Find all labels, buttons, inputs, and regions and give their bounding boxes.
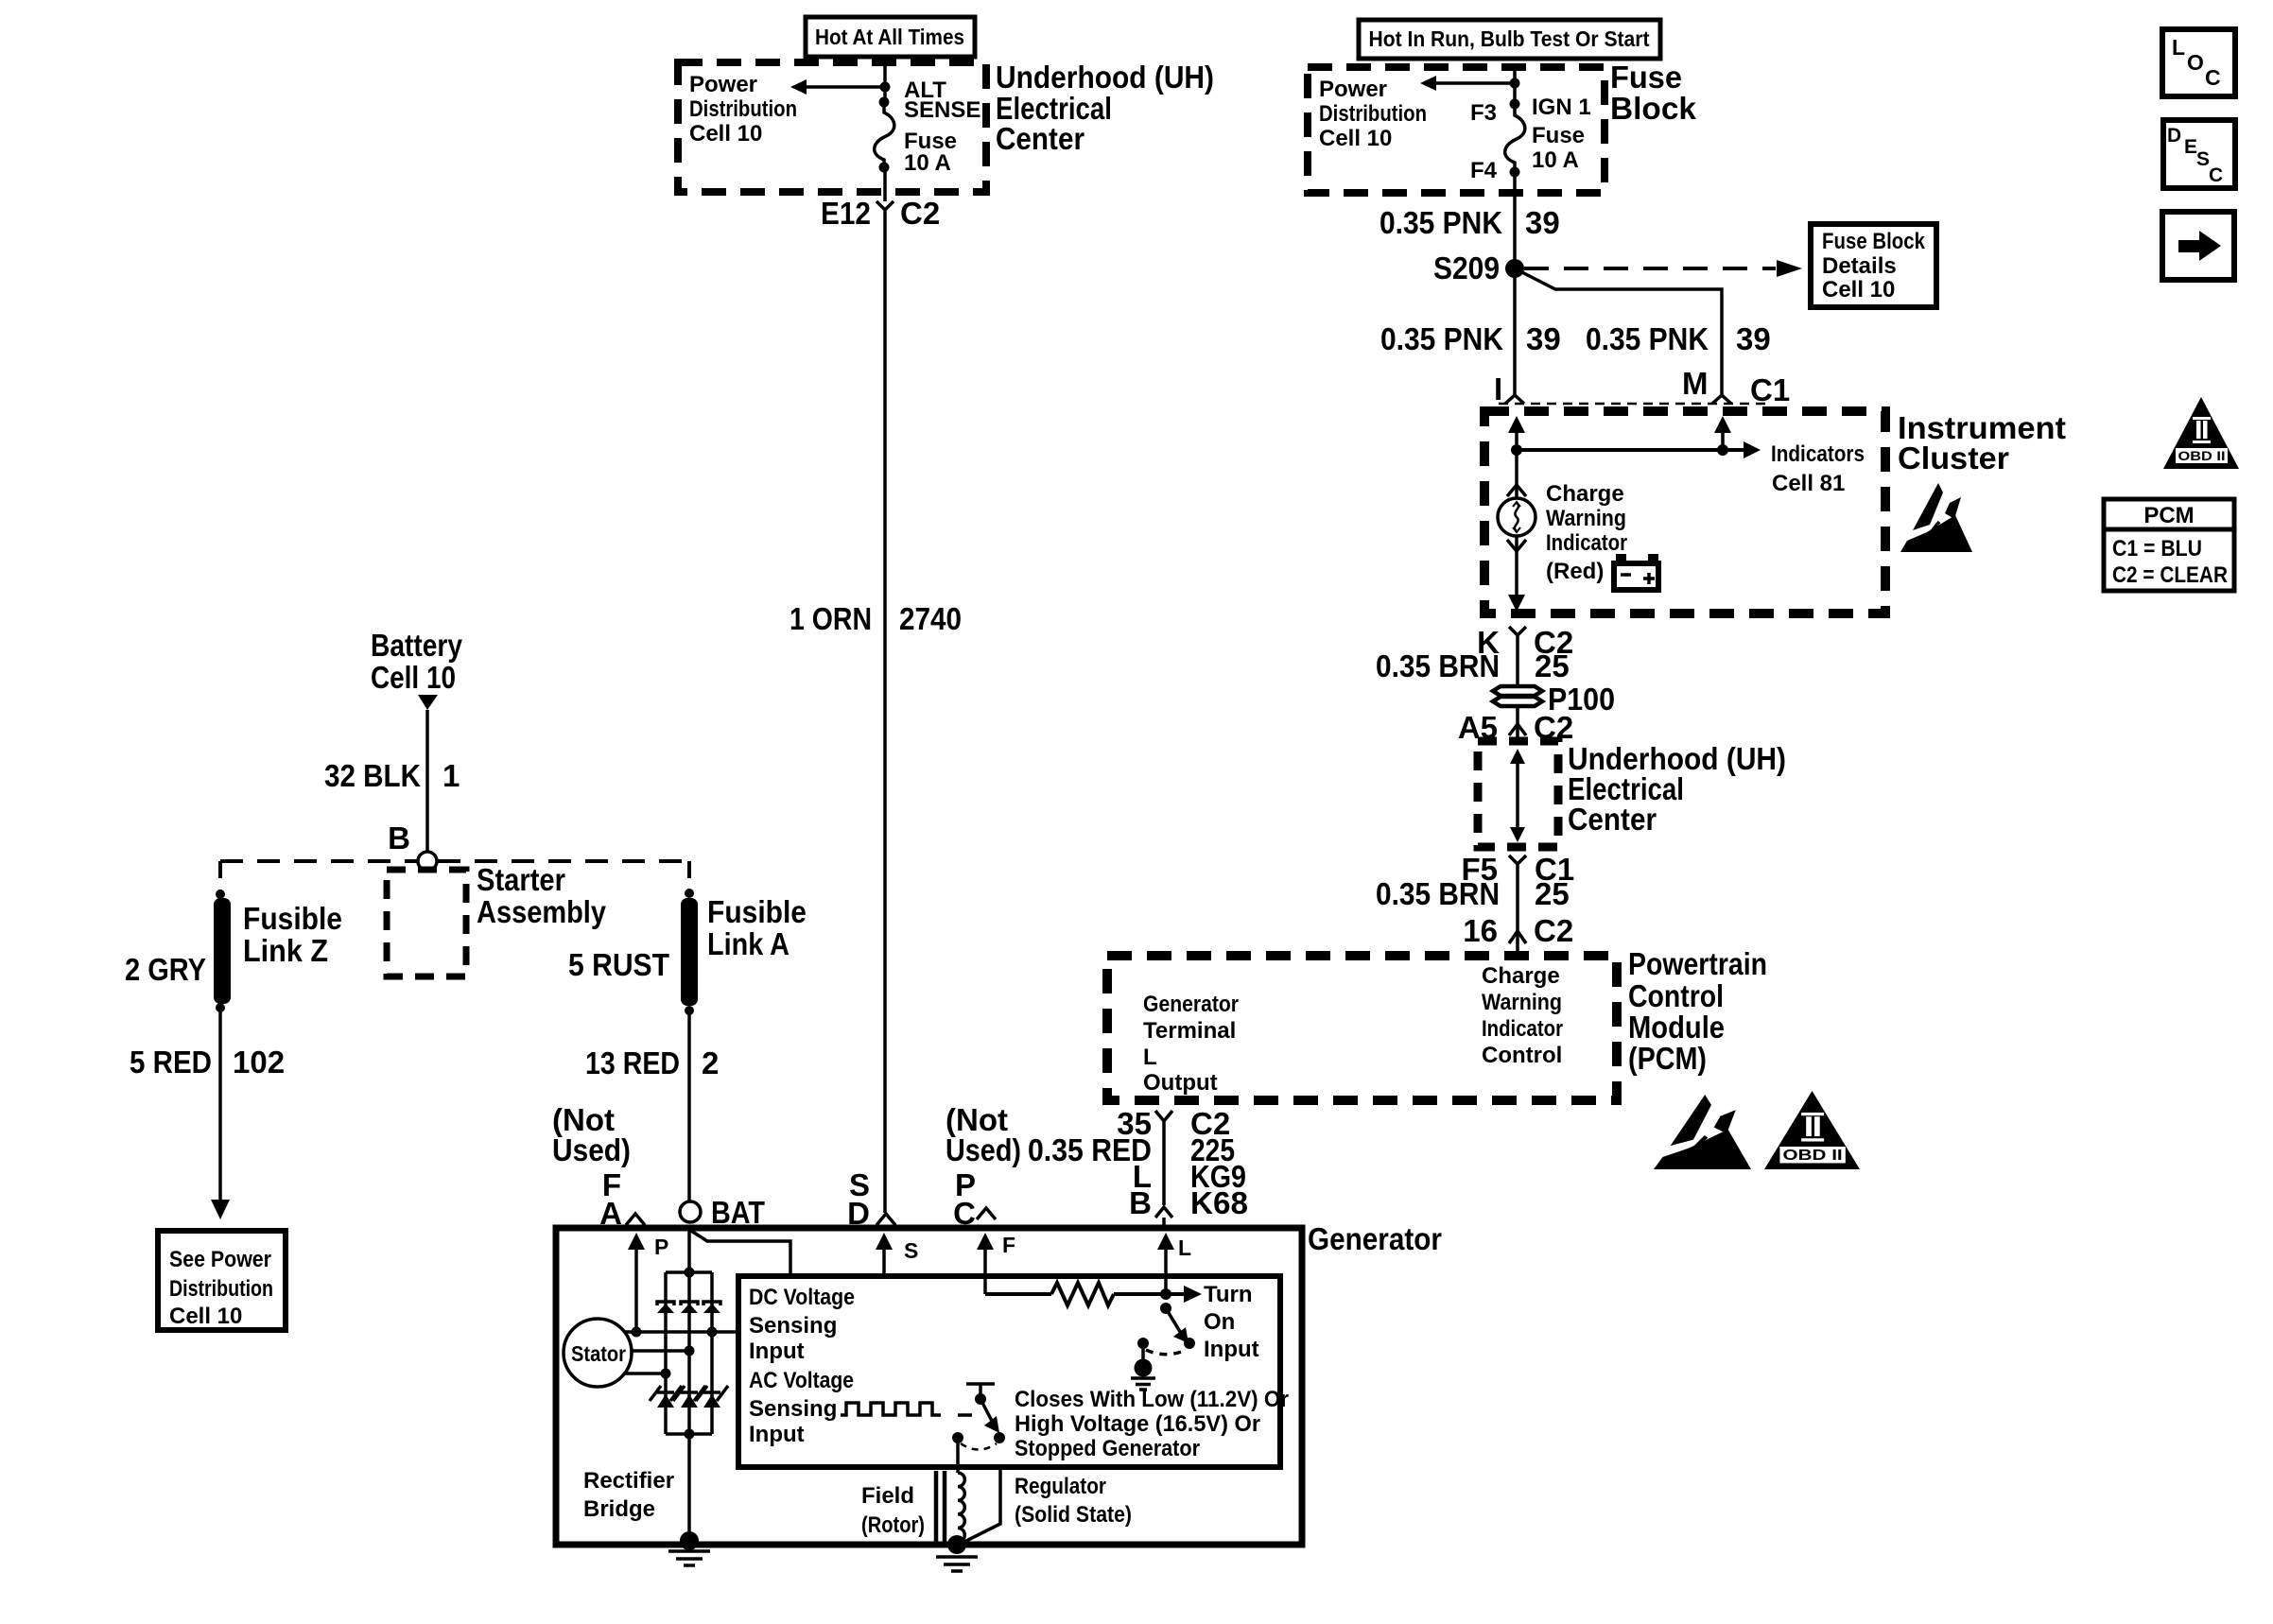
connector 35 C2 (tall Y to chevron) (1155, 1111, 1172, 1218)
svg-text:0.35 BRN: 0.35 BRN (1376, 648, 1500, 683)
svg-text:Distribution: Distribution (1319, 101, 1427, 127)
svg-text:Bridge: Bridge (583, 1496, 655, 1522)
diode 3 (top row) (703, 1302, 720, 1313)
ESD symbol (PCM) (1654, 1095, 1751, 1169)
connector K C2 (Y symbol) (1509, 627, 1526, 654)
chevron I (1505, 395, 1524, 404)
svg-text:Underhood (UH): Underhood (UH) (996, 60, 1214, 95)
svg-text:Used): Used) (946, 1132, 1021, 1167)
connector F5 C1 (Y symbol) (1509, 855, 1526, 883)
svg-text:Powertrain: Powertrain (1628, 946, 1767, 981)
svg-text:102: 102 (233, 1045, 285, 1080)
stator phase wire 2 (632, 1349, 689, 1353)
svg-text:C2: C2 (900, 196, 940, 231)
svg-text:10 A: 10 A (1532, 147, 1579, 173)
svg-text:0.35 PNK: 0.35 PNK (1586, 321, 1709, 356)
svg-text:Cell 10: Cell 10 (1319, 126, 1392, 151)
svg-text:Cell 10: Cell 10 (1822, 277, 1895, 302)
OBD II symbol (PCM) (1764, 1091, 1860, 1169)
switch 2 pivot dot (975, 1393, 986, 1405)
svg-text:Cell 10: Cell 10 (169, 1304, 242, 1329)
svg-text:39: 39 (1526, 321, 1561, 356)
arrow to Power Distribution (806, 85, 885, 89)
svg-text:Cell 10: Cell 10 (689, 121, 762, 147)
svg-text:C2: C2 (1534, 913, 1573, 948)
chevron A (626, 1214, 645, 1225)
svg-text:2: 2 (702, 1045, 719, 1080)
wire 32 BLK 1 (425, 710, 429, 854)
dashed wire B to fusible links (220, 859, 417, 863)
diode 1 (top row) (657, 1302, 674, 1313)
node dot F4 (1510, 167, 1520, 178)
fuse ALT SENSE (wavy symbol) (875, 102, 894, 166)
svg-text:5 RUST: 5 RUST (568, 947, 669, 982)
svg-text:Block: Block (1610, 91, 1697, 126)
wire ALT SENSE fuse feed (883, 64, 887, 103)
svg-text:25: 25 (1535, 648, 1570, 683)
node dot at arrow junction (880, 82, 891, 93)
switch 1 travel arc (dashed) (1146, 1350, 1184, 1355)
wire fuse to connector E12 (883, 167, 887, 201)
wire K to P100 (1516, 654, 1519, 687)
node dot above link Z (216, 890, 225, 899)
svg-text:Fusible: Fusible (707, 894, 807, 929)
fusible link A (681, 898, 698, 1006)
svg-text:Control: Control (1628, 978, 1724, 1013)
svg-text:0.35 PNK: 0.35 PNK (1380, 321, 1503, 356)
arrow Turn On Input (1166, 1292, 1185, 1296)
battery icon (1616, 554, 1626, 562)
node dot L junction (1160, 1288, 1171, 1300)
svg-text:Hot In Run, Bulb Test Or Start: Hot In Run, Bulb Test Or Start (1369, 26, 1650, 51)
svg-text:0.35 BRN: 0.35 BRN (1376, 876, 1500, 911)
icon box LOC (2162, 29, 2235, 96)
terminal circle BAT (680, 1201, 701, 1222)
splice S209 (1505, 259, 1524, 278)
switch 2 travel arc (dashed) (961, 1443, 997, 1450)
switch 2 fixed contact dot (952, 1432, 963, 1443)
switch 2 arm end dot (994, 1432, 1005, 1443)
svg-text:C1: C1 (1750, 372, 1790, 407)
svg-text:Stator: Stator (571, 1341, 626, 1366)
svg-text:OBD II: OBD II (1783, 1147, 1843, 1164)
generator box (556, 1228, 1302, 1545)
wire 13 RED 2 to BAT (687, 1011, 691, 1201)
svg-text:IGN 1: IGN 1 (1532, 95, 1591, 120)
svg-text:AC Voltage: AC Voltage (749, 1368, 854, 1393)
svg-text:Fuse: Fuse (1610, 60, 1682, 95)
icon box forward arrow (2162, 212, 2234, 280)
wire F to resistor (985, 1292, 1051, 1296)
dashed box Starter Assembly (387, 870, 466, 976)
dashed box Underhood Electrical Center (small) (1478, 741, 1558, 847)
svg-text:Input: Input (749, 1422, 805, 1447)
stator phase wire 3 (624, 1372, 666, 1375)
svg-text:16: 16 (1463, 913, 1498, 948)
terminal arrow F (983, 1240, 987, 1294)
field coil core bars (934, 1471, 939, 1543)
chevron C (977, 1208, 996, 1219)
ESD symbol (cluster) (1900, 483, 1972, 552)
svg-text:BAT: BAT (711, 1195, 765, 1230)
svg-text:Generator: Generator (1143, 992, 1239, 1017)
node dot left (1511, 444, 1522, 456)
svg-text:Starter: Starter (477, 862, 565, 897)
ground symbol field (936, 1557, 978, 1571)
svg-text:Center: Center (1568, 802, 1657, 837)
svg-text:C: C (2209, 164, 2223, 186)
wire through UH center with arrows (1516, 756, 1519, 836)
svg-text:E: E (2184, 136, 2197, 158)
node dot bottom rail (685, 1429, 695, 1440)
svg-text:Control: Control (1482, 1043, 1562, 1068)
wire lamp to cluster edge with down arrow (1515, 536, 1518, 600)
svg-text:S: S (904, 1238, 918, 1263)
header box Hot At All Times (806, 17, 975, 57)
node dot at arrow junction (1510, 78, 1520, 89)
svg-text:L: L (1178, 1235, 1191, 1260)
regulator ground link (959, 1467, 1000, 1545)
chevron above lamp (1507, 485, 1526, 496)
chevron M (1712, 395, 1731, 404)
wire contact to field coil (956, 1438, 960, 1473)
svg-text:F3: F3 (1470, 100, 1497, 126)
wire 1 ORN 2740 (long vertical to generator S) (883, 219, 887, 1213)
svg-text:L: L (2172, 35, 2185, 60)
svg-text:(PCM): (PCM) (1628, 1041, 1707, 1076)
svg-text:1: 1 (442, 758, 460, 793)
svg-text:L: L (1143, 1045, 1157, 1070)
svg-text:Regulator: Regulator (1015, 1474, 1106, 1499)
svg-text:F4: F4 (1470, 158, 1498, 183)
svg-text:E12: E12 (821, 196, 871, 231)
wire BAT to regulator (DC sense) (691, 1231, 790, 1276)
svg-text:10 A: 10 A (904, 150, 951, 176)
wire 16 to PCM (1516, 942, 1519, 956)
svg-text:Battery: Battery (371, 628, 463, 663)
svg-text:S: S (2196, 148, 2210, 170)
svg-text:See Power: See Power (169, 1247, 271, 1272)
diode 5 (bottom row, avalanche) (673, 1386, 705, 1408)
box Fuse Block Details Cell 10 (1811, 224, 1936, 307)
svg-text:Cell 10: Cell 10 (371, 660, 456, 695)
node dot fuse bottom (879, 163, 890, 173)
svg-text:2740: 2740 (899, 601, 962, 636)
switch 1 pivot dot (1160, 1303, 1171, 1314)
dashed box Underhood Electrical Center (top) (678, 62, 986, 192)
square wave symbol (841, 1403, 941, 1415)
svg-text:Fuse Block: Fuse Block (1822, 229, 1926, 254)
svg-text:32 BLK: 32 BLK (324, 758, 421, 793)
svg-text:Indicators: Indicators (1771, 441, 1865, 467)
switch 1 arm end dot (1184, 1338, 1195, 1349)
arrow to Indicators (1723, 448, 1744, 452)
header box Hot In Run, Bulb Test Or Start (1359, 20, 1660, 59)
svg-text:(Solid State): (Solid State) (1015, 1502, 1132, 1528)
chevron D (876, 1214, 895, 1225)
svg-text:(Red): (Red) (1546, 559, 1604, 584)
svg-text:Indicator: Indicator (1546, 530, 1627, 556)
svg-text:C2 = CLEAR: C2 = CLEAR (2112, 562, 2228, 588)
svg-text:DC Voltage: DC Voltage (749, 1285, 855, 1310)
svg-text:Terminal: Terminal (1143, 1018, 1236, 1044)
svg-text:Sensing: Sensing (749, 1313, 837, 1339)
dashed box Instrument Cluster (1484, 411, 1885, 613)
svg-text:39: 39 (1525, 205, 1560, 240)
svg-text:P: P (654, 1235, 668, 1259)
svg-text:Field: Field (861, 1483, 914, 1509)
OBD II symbol (right margin) (2163, 397, 2239, 469)
wire I into cluster with up arrow (1515, 425, 1518, 450)
svg-text:Rectifier: Rectifier (583, 1468, 674, 1494)
svg-text:Distribution: Distribution (689, 96, 797, 122)
wire M into cluster with up arrow (1721, 425, 1725, 450)
ground node field (947, 1535, 966, 1554)
chevron below lamp (1507, 540, 1526, 551)
svg-text:B: B (1129, 1185, 1152, 1220)
fuse IGN 1 (wavy symbol) (1505, 104, 1525, 170)
svg-text:Charge: Charge (1546, 481, 1624, 507)
svg-text:F: F (1002, 1233, 1015, 1257)
fusible link Z (214, 898, 231, 1004)
svg-text:B: B (388, 821, 410, 855)
svg-text:Input: Input (1204, 1337, 1259, 1362)
connector A5 C2 (chevron) (1509, 724, 1526, 735)
svg-text:Assembly: Assembly (477, 894, 607, 929)
svg-text:Power: Power (689, 72, 757, 97)
icon box DESC (2163, 120, 2235, 188)
svg-text:Used): Used) (552, 1132, 631, 1167)
svg-text:Fusible: Fusible (243, 901, 342, 936)
svg-text:2 GRY: 2 GRY (125, 952, 206, 987)
terminal arrow L (1164, 1240, 1168, 1294)
connector E12 C2 (Y symbol) (876, 201, 894, 219)
svg-text:Turn: Turn (1204, 1282, 1253, 1307)
node B circle (418, 852, 437, 871)
svg-text:I: I (1494, 371, 1502, 406)
svg-text:Output: Output (1143, 1070, 1218, 1096)
wire 0.35 PNK 39 (fuse to S209) (1513, 172, 1517, 395)
switch 1 fixed contact dot (1137, 1338, 1149, 1349)
terminal arrow S (882, 1240, 886, 1276)
svg-text:Generator: Generator (1308, 1221, 1442, 1256)
svg-text:PCM: PCM (2143, 503, 2194, 528)
svg-text:Indicator: Indicator (1482, 1016, 1563, 1042)
svg-text:Cluster: Cluster (1898, 441, 2009, 475)
node dot right (1717, 444, 1728, 456)
svg-text:13 RED: 13 RED (585, 1045, 680, 1080)
svg-text:(Rotor): (Rotor) (861, 1512, 925, 1538)
svg-text:Distribution: Distribution (169, 1276, 273, 1302)
switch 2 top contact (T bar) (966, 1382, 995, 1386)
svg-text:Link Z: Link Z (243, 933, 328, 968)
svg-text:Warning: Warning (1546, 506, 1626, 531)
svg-text:High Voltage (16.5V) Or: High Voltage (16.5V) Or (1015, 1411, 1260, 1437)
dashed reference line S209 to Fuse Block Details (1524, 267, 1776, 270)
arrow to Power Distribution (fuse block) (1435, 81, 1515, 85)
dashed box Fuse Block (1308, 67, 1605, 193)
stator circle (564, 1319, 632, 1387)
node dot above link A (685, 889, 694, 898)
connector 16 C2 (chevron) (1509, 931, 1526, 943)
wire resistor to L (1114, 1292, 1166, 1296)
lamp Charge Warning Indicator (1498, 498, 1536, 536)
svg-text:SENSE: SENSE (904, 97, 980, 123)
switch 1 ground stub (1141, 1343, 1145, 1361)
svg-text:Hot At All Times: Hot At All Times (815, 25, 964, 49)
node dot below link A (685, 1006, 694, 1015)
svg-text:Module: Module (1628, 1010, 1725, 1045)
diode 2 (top row) (681, 1302, 698, 1313)
svg-text:25: 25 (1535, 876, 1570, 911)
svg-text:C1 = BLU: C1 = BLU (2112, 536, 2202, 561)
regulator box (738, 1276, 1280, 1467)
svg-text:On: On (1204, 1309, 1235, 1335)
wire 5 RED 102 with down arrow (218, 1008, 222, 1202)
svg-text:39: 39 (1736, 321, 1771, 356)
off-page pointer triangle (418, 695, 438, 710)
wire S209 branch to M (1515, 268, 1722, 395)
diode 4 (bottom row, avalanche) (650, 1386, 682, 1408)
resistor (1051, 1283, 1114, 1305)
wire junction to indicators (1517, 448, 1723, 452)
svg-text:Warning: Warning (1482, 990, 1562, 1015)
wire BAT internal (687, 1231, 691, 1541)
wire B to generator L (1162, 1218, 1166, 1228)
wire F5 to 16 (1516, 883, 1519, 919)
grommet P100 (1493, 686, 1542, 696)
svg-text:M: M (1682, 366, 1709, 401)
svg-text:O: O (2187, 50, 2204, 75)
node dot fuse top (879, 97, 890, 108)
svg-text:Fuse: Fuse (1532, 123, 1585, 148)
svg-text:K68: K68 (1190, 1185, 1248, 1220)
svg-text:Sensing: Sensing (749, 1396, 837, 1422)
svg-text:Closes With Low (11.2V) Or: Closes With Low (11.2V) Or (1015, 1387, 1289, 1412)
field coil windings (958, 1473, 964, 1542)
rectifier bridge rails (666, 1270, 712, 1274)
svg-text:D: D (2167, 125, 2181, 147)
wire P100 to A5 (1516, 706, 1519, 737)
svg-text:Center: Center (996, 121, 1084, 156)
node dot below link Z (216, 1003, 225, 1012)
switch 1 arm (1166, 1308, 1182, 1335)
svg-text:Power: Power (1319, 77, 1387, 102)
svg-text:1 ORN: 1 ORN (789, 601, 872, 636)
node dot top rail (685, 1268, 695, 1278)
wire IGN1 fuse feed (1513, 69, 1517, 104)
legend box PCM C1=BLU C2=CLEAR (2104, 499, 2234, 591)
svg-text:OBD II: OBD II (2178, 448, 2226, 463)
terminal arrow P (634, 1240, 638, 1332)
svg-text:C: C (2205, 65, 2221, 90)
switch 2 arm (980, 1399, 993, 1423)
svg-text:0.35 PNK: 0.35 PNK (1379, 205, 1502, 240)
svg-text:5 RED: 5 RED (130, 1045, 212, 1080)
svg-text:Cell 81: Cell 81 (1772, 471, 1845, 496)
node dot F3 (1510, 99, 1520, 110)
svg-text:Link A: Link A (707, 926, 789, 961)
stator phase wire 1 (624, 1330, 738, 1334)
svg-text:S209: S209 (1433, 251, 1500, 285)
box See Power Distribution Cell 10 (158, 1231, 286, 1330)
svg-text:Stopped Generator: Stopped Generator (1015, 1436, 1200, 1461)
dashed box Powertrain Control Module (PCM) (1107, 956, 1617, 1100)
ground symbol BAT (668, 1551, 710, 1565)
svg-text:Input: Input (749, 1339, 805, 1364)
diode 6 (bottom row, avalanche) (696, 1386, 728, 1408)
ground node BAT (680, 1531, 699, 1550)
svg-text:Details: Details (1822, 253, 1897, 279)
svg-text:Charge: Charge (1482, 963, 1560, 989)
wire to charge indicator (1515, 450, 1518, 498)
thin dashed connector line C1 (1499, 403, 1770, 406)
